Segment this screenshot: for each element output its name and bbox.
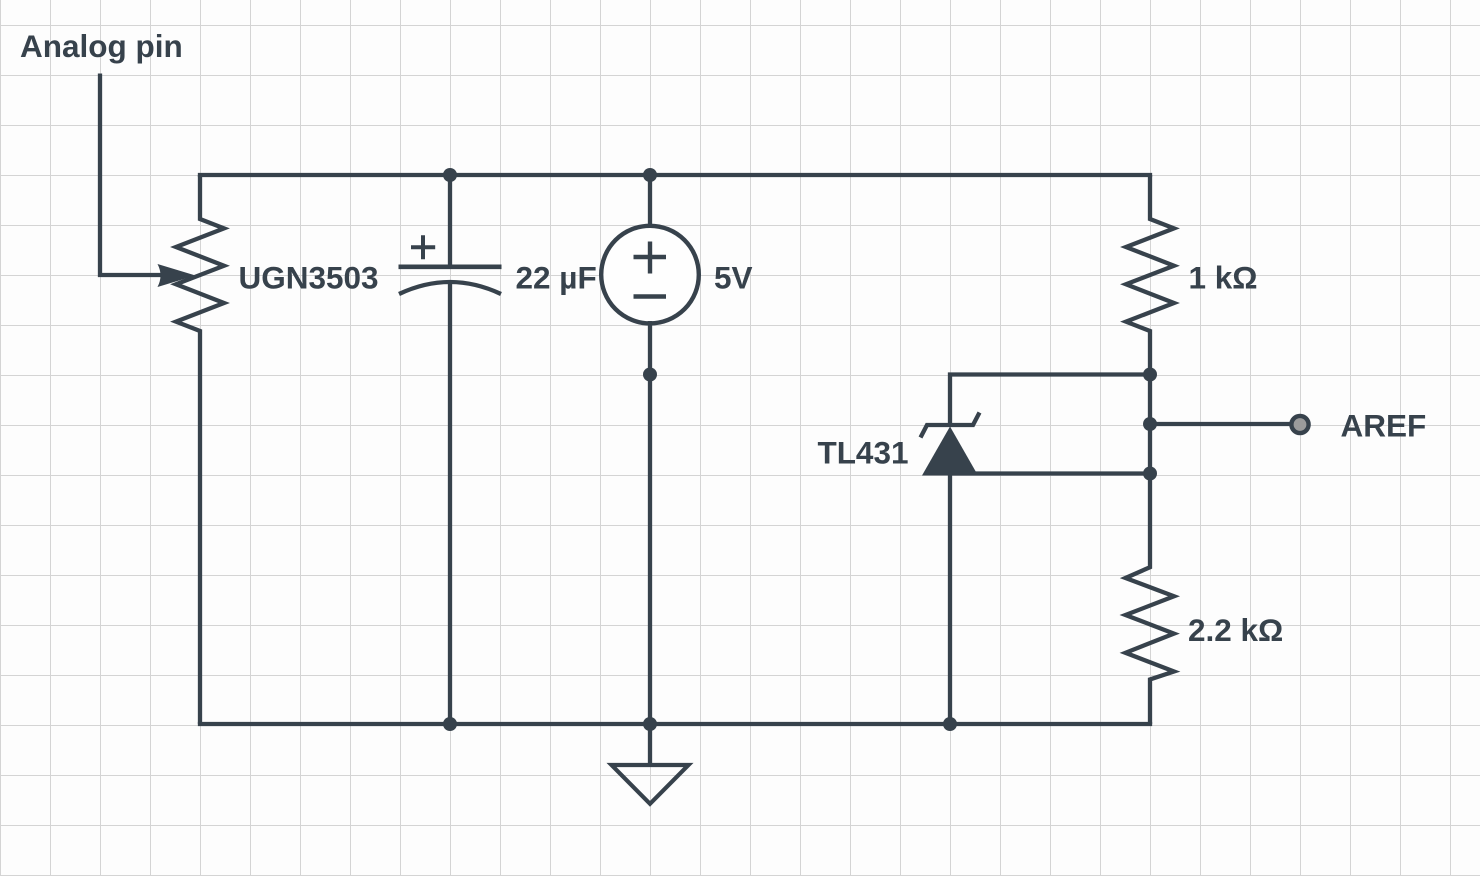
junction: 5V bottom lead mid <box>643 368 657 382</box>
svg-text:UGN3503: UGN3503 <box>239 260 379 296</box>
terminal AREF (open circle) <box>1291 416 1308 433</box>
svg-text:22 µF: 22 µF <box>516 260 597 296</box>
svg-text:2.2 kΩ: 2.2 kΩ <box>1188 612 1283 648</box>
TL431 cathode bar with bent ticks <box>921 413 980 438</box>
wire: TL431 anode to right branch <box>950 471 1150 475</box>
ground stub wire <box>648 724 652 764</box>
sensor UGN3503 (resistor symbol, left branch) <box>176 175 224 724</box>
capacitor C1 top plate <box>399 264 502 269</box>
wire: capacitor branch top lead <box>448 175 452 267</box>
TL431 anode triangle <box>922 427 978 476</box>
ground symbol <box>612 765 689 804</box>
wire: TL431 cathode to 1k/2.2k junction <box>950 375 1150 426</box>
arrowhead pointing at UGN3503 <box>158 264 196 287</box>
svg-text:Analog pin: Analog pin <box>20 28 183 64</box>
capacitor C1 curved bottom plate <box>399 282 501 294</box>
wire: bottom rail <box>200 722 1150 726</box>
junction: right branch / TL431 anode wire <box>1143 467 1157 481</box>
wire: top rail <box>200 173 1150 177</box>
junction: bottom rail / 5V source <box>643 717 657 731</box>
wire: TL431 anode down to bottom rail <box>948 474 952 725</box>
capacitor C1 polarity plus sign <box>411 235 435 259</box>
voltage source V1 plus sign <box>634 242 667 274</box>
svg-text:5V: 5V <box>714 260 753 296</box>
wire: AREF lead <box>1150 422 1290 426</box>
svg-text:TL431: TL431 <box>817 435 908 471</box>
junction: top rail / capacitor <box>443 168 457 182</box>
junction: top rail / 5V source <box>643 168 657 182</box>
resistor R1 1 kOhm and R2 2.2 kOhm right branch <box>1126 175 1175 724</box>
junction: right branch / TL431 cathode wire <box>1143 368 1157 382</box>
wire: Analog pin lead (down then right) <box>100 74 162 276</box>
junction: bottom rail / capacitor <box>443 717 457 731</box>
voltage source V1 circle <box>601 226 699 324</box>
wire: 5V source top lead <box>648 175 652 229</box>
junction: right branch / AREF <box>1143 417 1157 431</box>
voltage source V1 minus sign <box>634 294 667 299</box>
svg-text:AREF: AREF <box>1341 408 1427 444</box>
wire: capacitor branch bottom lead <box>448 282 452 724</box>
junction: bottom rail / TL431 <box>943 717 957 731</box>
svg-text:1 kΩ: 1 kΩ <box>1189 260 1258 296</box>
wire: 5V source bottom lead <box>648 321 652 724</box>
